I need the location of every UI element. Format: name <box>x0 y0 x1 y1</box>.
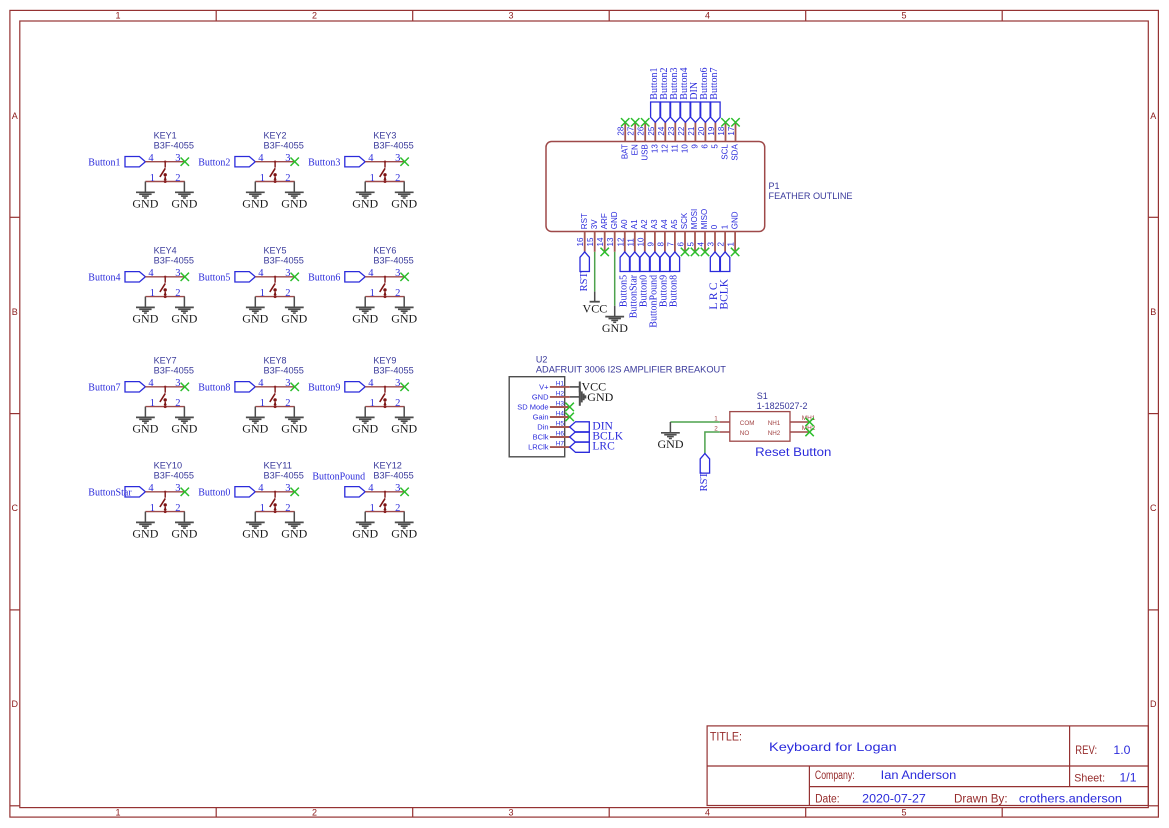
svg-text:1: 1 <box>150 398 155 409</box>
svg-text:2: 2 <box>285 398 290 409</box>
svg-text:Keyboard for Logan: Keyboard for Logan <box>769 741 897 754</box>
ground symbol left <box>364 512 366 522</box>
no-connect X pin 4 <box>701 248 709 256</box>
wire pin4 to pin3 <box>255 386 294 388</box>
svg-text:KEY6: KEY6 <box>373 245 396 255</box>
switch KEY1 B3F-4055 <box>88 130 197 210</box>
svg-text:A: A <box>12 111 18 121</box>
svg-text:8: 8 <box>656 242 665 247</box>
svg-text:H3: H3 <box>556 400 565 407</box>
pin 14 (ARF) bottom <box>596 213 609 252</box>
svg-text:1/1: 1/1 <box>1120 771 1137 785</box>
pin H1 (V+) <box>539 380 570 391</box>
junction <box>384 295 387 298</box>
no-connect X pin 17 <box>731 118 739 126</box>
svg-text:NH2: NH2 <box>768 430 781 437</box>
pin 19 (5) top <box>707 122 720 148</box>
svg-text:GND: GND <box>352 422 378 436</box>
svg-text:crothers.anderson: crothers.anderson <box>1019 791 1122 805</box>
switch KEY3 B3F-4055 <box>308 130 417 210</box>
module U2 ADAFRUIT 3006 I2S AMPLIFIER BREAKOUT <box>509 355 726 457</box>
svg-text:RST: RST <box>699 472 710 492</box>
svg-text:Button9: Button9 <box>308 383 340 394</box>
no-connect X pin 27 <box>631 118 639 126</box>
junction <box>164 405 167 408</box>
net flag Button1 <box>651 102 660 122</box>
pin 1 (COM) <box>720 421 730 423</box>
svg-text:24: 24 <box>657 126 666 135</box>
svg-text:B3F-4055: B3F-4055 <box>264 365 304 375</box>
svg-text:3: 3 <box>175 153 180 164</box>
pin 26 (USB) top <box>637 122 650 160</box>
svg-text:KEY4: KEY4 <box>154 245 177 255</box>
ground symbol right <box>183 297 185 307</box>
svg-text:1: 1 <box>115 10 120 20</box>
svg-text:1: 1 <box>260 503 265 514</box>
svg-text:H2: H2 <box>556 390 565 397</box>
svg-text:3: 3 <box>175 268 180 279</box>
svg-text:18: 18 <box>717 126 726 135</box>
switch KEY8 B3F-4055 <box>198 355 307 435</box>
svg-text:4: 4 <box>258 483 264 494</box>
svg-text:2: 2 <box>175 173 180 184</box>
no-connect X pin 18 <box>721 118 729 126</box>
svg-text:Date:: Date: <box>815 793 840 805</box>
svg-text:5: 5 <box>687 242 696 247</box>
svg-text:12: 12 <box>661 144 670 153</box>
svg-text:1.0: 1.0 <box>1113 743 1130 757</box>
svg-text:1: 1 <box>727 242 736 247</box>
net flag LRC <box>710 252 719 272</box>
net flag RST <box>580 252 589 272</box>
pin 2 (NO) <box>720 431 730 433</box>
ground symbol right <box>183 182 185 192</box>
wire pin1 to pin2 <box>365 296 404 298</box>
P1 body outline <box>546 142 765 232</box>
svg-text:3V: 3V <box>590 219 599 229</box>
svg-text:4: 4 <box>258 153 264 164</box>
svg-text:U2: U2 <box>536 355 548 365</box>
net flag ButtonPound <box>345 487 365 497</box>
net flag Button1 <box>125 157 145 167</box>
ground symbol right <box>293 182 295 192</box>
svg-text:GND: GND <box>242 422 268 436</box>
svg-text:4: 4 <box>705 10 710 20</box>
svg-text:SDA: SDA <box>731 144 740 161</box>
svg-text:GND: GND <box>171 312 197 326</box>
svg-text:4: 4 <box>368 268 374 279</box>
junction <box>384 180 387 183</box>
wire GND pin13 <box>614 252 616 306</box>
svg-text:4: 4 <box>148 153 154 164</box>
svg-text:GND: GND <box>658 437 684 451</box>
no-connect X pin H4 <box>566 413 574 421</box>
svg-text:KEY5: KEY5 <box>264 245 287 255</box>
svg-text:GND: GND <box>391 312 417 326</box>
no-connect X MH1 <box>805 418 813 426</box>
svg-text:12: 12 <box>616 237 625 246</box>
svg-text:Ian Anderson: Ian Anderson <box>881 768 957 782</box>
ground symbol right <box>293 512 295 522</box>
svg-text:MISO: MISO <box>700 209 709 229</box>
svg-text:A2: A2 <box>640 219 649 229</box>
switch actuator <box>380 491 387 512</box>
svg-text:2: 2 <box>175 288 180 299</box>
net flag Button7 <box>711 102 720 122</box>
svg-text:19: 19 <box>707 126 716 135</box>
svg-text:4: 4 <box>705 808 710 818</box>
wire pin4 to pin3 <box>365 161 404 163</box>
svg-text:D: D <box>1150 699 1157 709</box>
svg-text:A0: A0 <box>620 219 629 229</box>
no-connect X pin 6 <box>681 248 689 256</box>
net flag Button9 <box>345 382 365 392</box>
svg-text:Button8: Button8 <box>198 383 230 394</box>
svg-text:GND: GND <box>610 211 619 229</box>
switch actuator <box>160 491 167 512</box>
pin H7 (LRClk) <box>528 441 570 452</box>
no-connect X pin 14 <box>601 248 609 256</box>
svg-text:P1: P1 <box>769 181 780 191</box>
svg-text:3: 3 <box>395 153 400 164</box>
svg-text:BCLK: BCLK <box>718 278 730 309</box>
svg-text:4: 4 <box>258 268 264 279</box>
wire pin1 to GND <box>670 421 719 423</box>
wire pin1 to pin2 <box>145 296 184 298</box>
switch actuator <box>380 386 387 407</box>
pin H6 (BClk) <box>533 430 570 441</box>
svg-text:1: 1 <box>150 503 155 514</box>
svg-text:1: 1 <box>115 808 120 818</box>
pin 2 (1) bottom <box>717 224 730 252</box>
pin 1 (GND) bottom <box>727 211 740 252</box>
ground symbol left <box>364 182 366 192</box>
pin MH1 <box>790 421 809 423</box>
svg-text:GND: GND <box>132 422 158 436</box>
junction <box>384 405 387 408</box>
svg-text:COM: COM <box>740 420 755 427</box>
svg-text:1: 1 <box>720 224 729 229</box>
net flag Button3 <box>345 157 365 167</box>
S1 body outline <box>730 412 790 442</box>
svg-text:GND: GND <box>171 527 197 541</box>
switch actuator <box>270 386 277 407</box>
ground symbol right <box>293 297 295 307</box>
switch KEY9 B3F-4055 <box>308 355 417 435</box>
svg-text:3: 3 <box>707 242 716 247</box>
pin 28 (BAT) top <box>617 122 630 159</box>
svg-text:KEY7: KEY7 <box>154 355 177 365</box>
ground symbol left <box>364 407 366 417</box>
svg-text:V+: V+ <box>539 383 549 392</box>
svg-text:10: 10 <box>636 237 645 246</box>
svg-text:14: 14 <box>596 237 605 246</box>
wire pin1 to pin2 <box>365 181 404 183</box>
svg-text:Button7: Button7 <box>88 383 120 394</box>
net flag Button0 <box>235 487 255 497</box>
svg-text:3: 3 <box>285 483 290 494</box>
svg-text:KEY9: KEY9 <box>373 355 396 365</box>
svg-text:1: 1 <box>150 173 155 184</box>
svg-text:17: 17 <box>727 126 736 135</box>
junction <box>274 180 277 183</box>
junction <box>164 295 167 298</box>
net flag ButtonStar <box>630 252 639 272</box>
svg-text:NH1: NH1 <box>768 420 781 427</box>
svg-text:3: 3 <box>508 10 513 20</box>
svg-text:H1: H1 <box>556 380 565 387</box>
svg-text:Sheet:: Sheet: <box>1074 773 1105 785</box>
svg-text:B3F-4055: B3F-4055 <box>264 140 304 150</box>
no-connect X pin 3 <box>400 488 408 496</box>
pin MH2 <box>790 431 809 433</box>
ground symbol left <box>254 182 256 192</box>
pin 5 (MOSI) bottom <box>687 209 700 252</box>
svg-text:21: 21 <box>687 126 696 135</box>
svg-text:H4: H4 <box>556 410 565 417</box>
svg-text:KEY2: KEY2 <box>264 130 287 140</box>
wire pin4 to pin3 <box>145 386 184 388</box>
svg-text:A: A <box>1150 111 1156 121</box>
pin 13 (GND) bottom <box>606 211 619 252</box>
wire pin4 to pin3 <box>145 491 184 493</box>
net flag Button0 <box>640 252 649 272</box>
wire pin4 to pin3 <box>255 161 294 163</box>
no-connect X pin 3 <box>181 488 189 496</box>
svg-text:9: 9 <box>646 242 655 247</box>
svg-text:Drawn By:: Drawn By: <box>954 793 1008 805</box>
svg-text:C: C <box>1150 503 1157 513</box>
pin H4 (Gain) <box>533 410 570 421</box>
svg-text:13: 13 <box>651 144 660 153</box>
ground symbol (P1 pin13) <box>614 306 616 316</box>
switch KEY7 B3F-4055 <box>88 355 197 435</box>
wire pin4 to pin3 <box>365 386 404 388</box>
pin 3 (0) bottom <box>707 224 720 252</box>
wire pin1 to pin2 <box>255 296 294 298</box>
svg-text:3: 3 <box>395 268 400 279</box>
wire pin2 to RST flag <box>705 432 720 454</box>
no-connect X pin 1 <box>731 248 739 256</box>
net flag Button6 <box>345 272 365 282</box>
svg-text:TITLE:: TITLE: <box>710 732 742 744</box>
no-connect X pin 5 <box>691 248 699 256</box>
svg-text:6: 6 <box>701 144 710 149</box>
svg-text:4: 4 <box>697 242 706 247</box>
svg-text:1-1825027-2: 1-1825027-2 <box>757 401 808 411</box>
svg-text:KEY12: KEY12 <box>373 460 402 470</box>
svg-text:Button1: Button1 <box>88 158 120 169</box>
switch actuator <box>380 276 387 297</box>
svg-text:ARF: ARF <box>600 213 609 229</box>
svg-text:A1: A1 <box>630 219 639 229</box>
net flag Button6 <box>701 102 710 122</box>
junction <box>164 510 167 513</box>
pin 16 (RST) bottom <box>576 213 589 252</box>
ground symbol left <box>364 297 366 307</box>
svg-text:ADAFRUIT 3006 I2S AMPLIFIER BR: ADAFRUIT 3006 I2S AMPLIFIER BREAKOUT <box>536 365 727 375</box>
svg-text:1: 1 <box>150 288 155 299</box>
pin 9 (A3) bottom <box>646 219 659 252</box>
no-connect X pin H3 <box>566 403 574 411</box>
svg-text:3: 3 <box>285 153 290 164</box>
svg-text:22: 22 <box>677 126 686 135</box>
net flag DIN (U2) <box>570 422 590 432</box>
switch actuator <box>160 161 167 182</box>
svg-text:Button3: Button3 <box>308 158 340 169</box>
ground symbol right <box>403 297 405 307</box>
no-connect X pin 3 <box>291 158 299 166</box>
svg-text:B3F-4055: B3F-4055 <box>154 365 194 375</box>
svg-text:23: 23 <box>667 126 676 135</box>
net flag Button3 <box>671 102 680 122</box>
pin 25 (13) top <box>647 122 660 153</box>
switch KEY2 B3F-4055 <box>198 130 307 210</box>
svg-text:3: 3 <box>395 378 400 389</box>
switch KEY10 B3F-4055 <box>88 460 197 540</box>
no-connect X pin 3 <box>400 273 408 281</box>
svg-text:Button7: Button7 <box>709 67 720 99</box>
svg-text:4: 4 <box>258 378 264 389</box>
svg-text:Button0: Button0 <box>198 488 230 499</box>
net flag Button8 <box>670 252 679 272</box>
svg-text:SCK: SCK <box>680 212 689 229</box>
svg-text:1: 1 <box>260 173 265 184</box>
switch actuator <box>270 491 277 512</box>
svg-text:3: 3 <box>175 378 180 389</box>
no-connect X MH2 <box>805 428 813 436</box>
net flag Button8 <box>235 382 255 392</box>
svg-text:27: 27 <box>627 126 636 135</box>
svg-text:GND: GND <box>391 197 417 211</box>
svg-text:GND: GND <box>391 527 417 541</box>
svg-text:3: 3 <box>175 483 180 494</box>
svg-text:B3F-4055: B3F-4055 <box>264 255 304 265</box>
svg-text:Button5: Button5 <box>198 273 230 284</box>
svg-text:RST: RST <box>580 213 589 229</box>
svg-text:ButtonStar: ButtonStar <box>88 488 132 499</box>
net flag Button4 <box>681 102 691 122</box>
switch actuator <box>160 276 167 297</box>
svg-text:A5: A5 <box>670 219 679 229</box>
svg-text:2: 2 <box>395 503 400 514</box>
svg-text:D: D <box>12 699 19 709</box>
no-connect X pin 3 <box>400 383 408 391</box>
switch actuator <box>270 276 277 297</box>
svg-text:16: 16 <box>576 237 585 246</box>
switch KEY5 B3F-4055 <box>198 245 307 325</box>
net flag Button2 <box>661 102 670 122</box>
ground symbol left <box>144 297 146 307</box>
svg-text:FEATHER OUTLINE: FEATHER OUTLINE <box>769 191 853 201</box>
wire pin4 to pin3 <box>255 276 294 278</box>
svg-text:GND: GND <box>352 197 378 211</box>
ground symbol right <box>403 182 405 192</box>
pin 20 (6) top <box>697 122 710 148</box>
svg-text:RST: RST <box>579 272 590 292</box>
svg-text:B3F-4055: B3F-4055 <box>373 255 413 265</box>
ground symbol left <box>254 407 256 417</box>
svg-text:4: 4 <box>148 378 154 389</box>
svg-text:B: B <box>12 307 18 317</box>
power symbol VCC (U2) <box>570 386 580 388</box>
svg-text:GND: GND <box>532 393 549 402</box>
pin 15 (3V) bottom <box>586 219 599 252</box>
title block <box>707 726 1148 806</box>
svg-text:BClk: BClk <box>533 433 549 442</box>
net flag ButtonStar <box>125 487 145 497</box>
svg-text:NO: NO <box>740 430 750 437</box>
svg-text:Gain: Gain <box>533 413 549 422</box>
no-connect X pin 26 <box>641 118 649 126</box>
ground symbol right <box>183 407 185 417</box>
net flag BCLK (U2) <box>570 432 590 442</box>
net flag BCLK <box>720 252 729 272</box>
svg-text:REV:: REV: <box>1075 745 1097 757</box>
ground symbol right <box>293 407 295 417</box>
svg-text:Button4: Button4 <box>88 273 120 284</box>
wire pin4 to pin3 <box>365 491 404 493</box>
pin 18 (SCL) top <box>717 122 730 159</box>
svg-text:1: 1 <box>370 173 375 184</box>
svg-text:SCL: SCL <box>721 144 730 160</box>
svg-text:SD Mode: SD Mode <box>517 403 548 412</box>
wire pin4 to pin3 <box>145 161 184 163</box>
svg-text:KEY3: KEY3 <box>373 130 396 140</box>
wire pin1 to pin2 <box>145 406 184 408</box>
svg-text:GND: GND <box>242 197 268 211</box>
svg-text:4: 4 <box>148 483 154 494</box>
pin 11 (A1) bottom <box>626 219 639 252</box>
switch actuator <box>270 161 277 182</box>
svg-text:KEY11: KEY11 <box>264 460 293 470</box>
no-connect X pin 3 <box>291 383 299 391</box>
svg-text:GND: GND <box>171 422 197 436</box>
svg-text:Reset Button: Reset Button <box>755 445 831 459</box>
svg-text:4: 4 <box>368 378 374 389</box>
svg-text:Button2: Button2 <box>198 158 230 169</box>
wire pin4 to pin3 <box>255 491 294 493</box>
svg-text:28: 28 <box>617 126 626 135</box>
svg-text:7: 7 <box>666 242 675 247</box>
wire pin1 to pin2 <box>365 406 404 408</box>
svg-text:2: 2 <box>312 10 317 20</box>
svg-text:Button6: Button6 <box>308 273 340 284</box>
pin 27 (EN) top <box>627 122 640 155</box>
svg-text:5: 5 <box>711 144 720 149</box>
svg-text:B3F-4055: B3F-4055 <box>373 140 413 150</box>
switch KEY4 B3F-4055 <box>88 245 197 325</box>
svg-text:B3F-4055: B3F-4055 <box>154 255 194 265</box>
switch KEY6 B3F-4055 <box>308 245 417 325</box>
junction <box>274 295 277 298</box>
svg-text:A3: A3 <box>650 219 659 229</box>
wire pin1 to pin2 <box>145 511 184 513</box>
svg-text:LRC: LRC <box>592 441 615 453</box>
ground symbol right <box>183 512 185 522</box>
ground symbol left <box>144 407 146 417</box>
svg-text:11: 11 <box>626 238 635 247</box>
pin H2 (GND) <box>532 390 570 401</box>
svg-text:3: 3 <box>508 808 513 818</box>
net flag Button9 <box>660 252 669 272</box>
svg-text:1: 1 <box>370 288 375 299</box>
svg-text:2: 2 <box>395 398 400 409</box>
svg-text:11: 11 <box>671 144 680 153</box>
svg-text:USB: USB <box>640 144 649 160</box>
pin 23 (11) top <box>667 122 680 152</box>
pin 8 (A4) bottom <box>656 219 669 252</box>
